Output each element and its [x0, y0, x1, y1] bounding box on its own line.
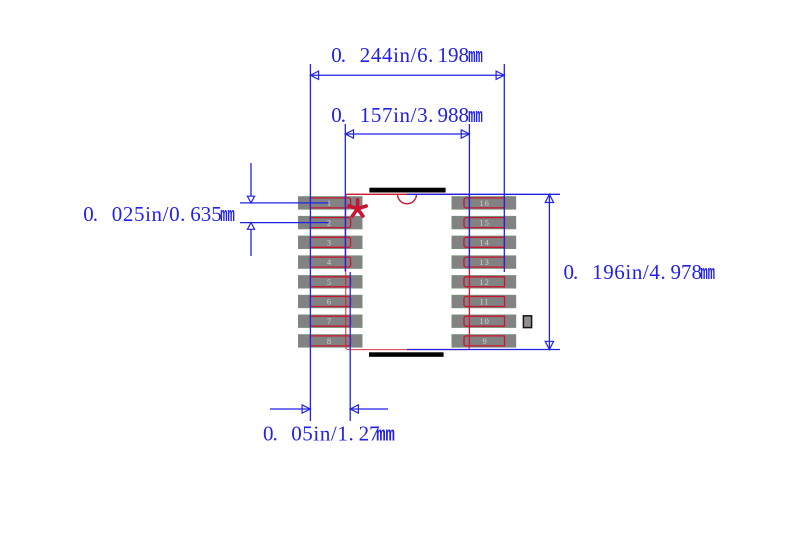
svg-text:025in/0.: 025in/0.: [112, 202, 186, 226]
pad 8: [299, 335, 363, 347]
pad outline 13: [464, 257, 505, 267]
svg-text:7: 7: [327, 316, 331, 326]
svg-text:988: 988: [438, 103, 470, 127]
pad 6: [299, 295, 363, 307]
pad outline 15: [464, 218, 505, 228]
pin number 1: [327, 198, 331, 208]
svg-text:0.: 0.: [331, 43, 345, 67]
pad 9: [452, 335, 516, 347]
pin number 6: [327, 297, 331, 307]
polarity marker rectangle: [523, 316, 531, 328]
pad 11: [452, 295, 516, 307]
pad outline 10: [464, 316, 505, 326]
overall width dimension line: [310, 71, 504, 79]
pad outline 6: [310, 297, 350, 307]
extension line right inner: [468, 124, 470, 269]
pad outline 3: [310, 237, 350, 247]
extension line left inner: [344, 124, 346, 272]
body height dimension top tick: [407, 193, 560, 195]
dimension text 0.244in/6.198mm: [331, 43, 469, 67]
pad 13: [452, 256, 516, 268]
pin number 14: [479, 237, 490, 247]
svg-text:196in/4.: 196in/4.: [592, 260, 666, 284]
pad outline 4: [310, 257, 350, 267]
svg-text:05in/1.: 05in/1.: [291, 421, 354, 445]
pad 2: [299, 216, 363, 228]
svg-text:11: 11: [480, 297, 490, 307]
svg-text:2: 2: [327, 218, 331, 228]
svg-text:mm: mm: [701, 262, 716, 285]
svg-text:9: 9: [482, 336, 486, 346]
extension line left outer: [309, 64, 311, 421]
pin number 16: [479, 198, 490, 208]
pad 4: [299, 256, 363, 268]
pin number 10: [479, 316, 490, 326]
pad outline 16: [464, 198, 505, 208]
pad 7: [299, 315, 363, 327]
pin number 8: [327, 336, 331, 346]
pad 16: [452, 197, 516, 209]
svg-text:6: 6: [327, 297, 331, 307]
svg-text:mm: mm: [468, 105, 483, 128]
svg-text:0.: 0.: [331, 103, 345, 127]
dimension text 0.157in/3.988mm: [331, 103, 469, 127]
pad outline 12: [464, 277, 505, 287]
pad 15: [452, 216, 516, 228]
pad outline 2: [310, 218, 350, 228]
svg-text:mm: mm: [376, 425, 395, 447]
extension line pad length: [349, 272, 351, 421]
pad length dimension arrows: [270, 405, 388, 413]
pin-1 asterisk marker: [349, 200, 366, 216]
pin number 2: [327, 218, 331, 228]
pin-1 end notch semicircle: [398, 194, 417, 204]
pin number 9: [482, 336, 486, 346]
svg-text:978: 978: [671, 260, 703, 284]
inner width dimension line: [345, 130, 469, 138]
package body outline: [346, 194, 470, 349]
body height dimension line: [545, 194, 553, 349]
svg-text:1: 1: [327, 198, 331, 208]
pad 10: [452, 315, 516, 327]
body height dimension bottom tick: [407, 349, 560, 351]
pad outline 9: [464, 336, 505, 346]
svg-text:13: 13: [479, 257, 490, 267]
pad outline 5: [310, 277, 350, 287]
pitch leader line pad1: [240, 202, 329, 204]
dimension text 0.025in/0.635mm: [83, 202, 222, 226]
pad outline 7: [310, 316, 350, 326]
svg-text:635: 635: [190, 202, 222, 226]
svg-text:0.: 0.: [263, 421, 277, 445]
svg-text:8: 8: [327, 336, 331, 346]
svg-text:14: 14: [479, 237, 490, 247]
pad outline 1: [310, 198, 350, 208]
pin number 15: [479, 218, 490, 228]
pin number 13: [479, 257, 490, 267]
svg-text:3: 3: [327, 237, 331, 247]
pin number 4: [327, 257, 332, 267]
pad 12: [452, 276, 516, 288]
svg-text:157in/3.: 157in/3.: [360, 103, 434, 127]
bottom silkscreen bar: [369, 352, 444, 357]
pad 3: [299, 236, 363, 248]
svg-text:198: 198: [438, 43, 470, 67]
pad 14: [452, 236, 516, 248]
svg-text:10: 10: [479, 316, 490, 326]
extension line right outer: [503, 64, 505, 272]
svg-text:mm: mm: [468, 45, 483, 68]
pitch leader line pad2: [240, 222, 329, 224]
svg-text:244in/6.: 244in/6.: [360, 43, 434, 67]
pad 5: [299, 276, 363, 288]
pin number 12: [479, 277, 490, 287]
pin number 11: [480, 297, 490, 307]
svg-text:12: 12: [479, 277, 490, 287]
pad outline 8: [310, 336, 350, 346]
pad outline 11: [464, 297, 505, 307]
dimension text 0.05in/1.27mm: [263, 421, 380, 445]
svg-text:15: 15: [479, 218, 490, 228]
pin number 7: [327, 316, 331, 326]
top silkscreen bar: [369, 188, 445, 193]
dimension text 0.196in/4.978mm: [564, 260, 703, 284]
pitch dimension arrows: [247, 163, 254, 256]
svg-text:5: 5: [327, 277, 331, 287]
svg-text:mm: mm: [220, 204, 235, 227]
svg-text:0.: 0.: [564, 260, 578, 284]
svg-text:0.: 0.: [83, 202, 97, 226]
pin number 5: [327, 277, 331, 287]
svg-text:16: 16: [479, 198, 490, 208]
pad 1: [299, 197, 363, 209]
pad outline 14: [464, 237, 505, 247]
pin number 3: [327, 237, 331, 247]
